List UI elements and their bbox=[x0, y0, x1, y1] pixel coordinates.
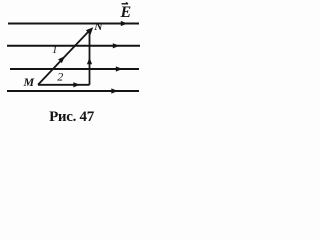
mid arrowhead on segment 2 bbox=[73, 82, 80, 87]
mid arrowhead on segment 1 bbox=[58, 56, 65, 63]
arrowhead on field line 1 bbox=[121, 21, 128, 26]
field line 1 bbox=[8, 23, 139, 25]
path segment 2: horizontal from M bbox=[38, 84, 90, 86]
svg-text:N: N bbox=[93, 21, 103, 33]
svg-text:E: E bbox=[120, 4, 132, 21]
arrowhead on field line 3 bbox=[116, 66, 123, 71]
path segment 1: diagonal M to N bbox=[38, 31, 89, 85]
svg-text:M: M bbox=[23, 75, 35, 89]
mid arrowhead on vertical segment bbox=[87, 58, 92, 65]
arrowhead at N end of segment 1 bbox=[86, 27, 93, 34]
field line 2 bbox=[7, 45, 140, 47]
vector arrow over E bbox=[122, 3, 129, 4]
svg-text:1: 1 bbox=[52, 44, 58, 56]
svg-text:Рис. 47: Рис. 47 bbox=[49, 109, 95, 125]
arrowhead on field line 4 bbox=[111, 88, 118, 93]
path vertical segment to N bbox=[89, 30, 91, 85]
field line 4 bbox=[7, 90, 139, 92]
svg-text:2: 2 bbox=[57, 69, 63, 83]
arrowhead on field line 2 bbox=[113, 43, 120, 48]
field line 3 bbox=[10, 68, 139, 70]
